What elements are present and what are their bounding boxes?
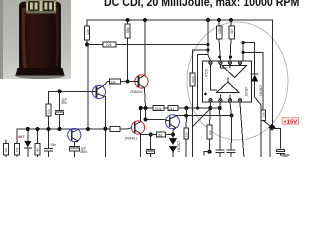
- svg-text:100k: 100k: [155, 107, 162, 111]
- resistor R9: [4, 140, 9, 157]
- wire: top bus: [87, 19, 272, 21]
- wire: bottom bus: [17, 128, 126, 130]
- diode D3: [170, 147, 177, 158]
- resistor R5 (to IC pin3): [229, 20, 235, 60]
- wire: drop to Q4 emitter: [144, 20, 146, 75]
- wire: left drop: [16, 129, 18, 146]
- resistor R11 1k on bottom bus: [110, 127, 120, 132]
- transistor Q5 (red 2N5401): [131, 121, 144, 134]
- resistor R18 drop: [185, 108, 187, 128]
- wire: Q1 collector to R6: [103, 82, 108, 87]
- svg-text:2k1: 2k1: [169, 107, 174, 111]
- capacitor C3 1uF MKS: [69, 142, 79, 157]
- capacitor C2 15n: [45, 129, 53, 157]
- resistor R2: [125, 20, 130, 82]
- node dots bottom bus: [26, 127, 108, 131]
- svg-text:1N4007: 1N4007: [177, 141, 181, 152]
- photo of CDI unit: [0, 0, 71, 79]
- diode D4 1N4007: [251, 74, 261, 157]
- wire: VCC drop to IC pin1: [208, 20, 211, 61]
- svg-text:10k: 10k: [86, 29, 90, 35]
- node dot: [58, 89, 62, 93]
- wire: right edge drop: [272, 20, 274, 127]
- capacitor C5: [216, 108, 224, 157]
- resistor R1: [85, 20, 90, 45]
- node dots top bus: [85, 18, 233, 47]
- capacitor C4 below: [147, 135, 155, 158]
- svg-text:22k: 22k: [111, 81, 117, 85]
- wire: pins down to row: [209, 102, 211, 108]
- wire: Q5 collector row to resistor: [141, 134, 151, 136]
- resistor R16 right column: [261, 110, 272, 127]
- capacitor C7 electrolytic: [277, 150, 285, 156]
- wire to Q5 base: [126, 128, 132, 129]
- wire: right column hook: [272, 129, 280, 149]
- resistor R6: [108, 79, 135, 84]
- zener D1 4V7: [24, 129, 31, 157]
- wire: Q1 base: [49, 90, 93, 92]
- svg-text:10k: 10k: [47, 109, 51, 114]
- enclosure ellipse: [187, 22, 288, 140]
- svg-text:2N5401: 2N5401: [125, 137, 138, 141]
- wire: Q5 emitter up: [140, 108, 142, 122]
- diode D2: [170, 139, 177, 145]
- resistor R3 horizontal on bus2: [103, 42, 116, 47]
- resistor R14 2k1: [151, 132, 173, 137]
- node dot +15V: [269, 124, 276, 131]
- ground: [281, 155, 289, 157]
- node dot: [126, 80, 130, 84]
- node dots row108: [139, 106, 222, 110]
- svg-text:VCC: VCC: [204, 68, 209, 77]
- svg-text:1k5: 1k5: [261, 112, 265, 117]
- node dot: [171, 133, 175, 137]
- diagonal wire: [193, 110, 209, 126]
- transistor Q1 (blue): [92, 85, 105, 98]
- svg-text:+15V: +15V: [283, 119, 297, 125]
- capacitor C6: [227, 116, 235, 157]
- wire: nest L2: [198, 55, 209, 109]
- resistor R7: [46, 104, 51, 129]
- svg-text:1M: 1M: [4, 147, 8, 152]
- wire: row118 right: [176, 115, 231, 117]
- capacitor C1 1uF 50V: [56, 91, 64, 129]
- wire: right column drop: [269, 128, 271, 157]
- wire: Q2 collector to bus: [77, 128, 79, 130]
- svg-text:10k: 10k: [15, 147, 19, 152]
- svg-text:4k7: 4k7: [36, 147, 40, 152]
- svg-text:2N5401: 2N5401: [130, 90, 143, 94]
- wire: row 118: [146, 108, 166, 120]
- transistor Q6 (blue): [166, 115, 180, 129]
- wire: Q1 emitter drop: [104, 97, 106, 158]
- resistor R4 (to IC pin2): [217, 20, 223, 60]
- wire: drop from bus2: [87, 45, 89, 130]
- op-amp IC U1: [203, 61, 252, 102]
- svg-text:100k: 100k: [191, 76, 195, 83]
- svg-text:56k: 56k: [126, 27, 130, 33]
- svg-text:1N4007: 1N4007: [259, 85, 263, 96]
- resistor R15 below pin1: [204, 108, 212, 155]
- resistor R13 2k1: [168, 106, 178, 111]
- IC labels: [204, 68, 249, 96]
- svg-text:15n: 15n: [51, 143, 57, 147]
- svg-text:10k: 10k: [185, 132, 189, 137]
- svg-text:4V7: 4V7: [18, 135, 25, 139]
- svg-text:22k: 22k: [106, 43, 112, 47]
- transistor Q2 (blue): [68, 128, 81, 142]
- svg-text:4k7: 4k7: [230, 29, 234, 34]
- wire: row 108: [141, 107, 220, 109]
- resistor R8: [15, 144, 20, 156]
- label +15V: [282, 118, 299, 126]
- wire: corner to R7: [48, 91, 50, 104]
- resistor R10: [35, 129, 40, 157]
- svg-text:GND: GND: [244, 87, 249, 96]
- wire: pin4 up and right: [240, 43, 243, 61]
- wire: Q6 emitter to diodes: [173, 128, 176, 139]
- svg-text:2k1: 2k1: [158, 134, 163, 138]
- wire: nest L1: [193, 50, 209, 73]
- svg-text:50V: 50V: [62, 101, 69, 105]
- wire: Q5 collector down: [140, 134, 142, 157]
- svg-text:10k: 10k: [208, 130, 212, 135]
- wire: second bus: [87, 44, 208, 46]
- wire: Q4 collector down: [145, 88, 146, 108]
- transistor Q4 (red 2N5401): [135, 75, 148, 88]
- svg-text:MKS: MKS: [81, 150, 88, 154]
- node dot: [206, 43, 209, 46]
- resistor R12 100k: [153, 106, 164, 111]
- svg-text:100k: 100k: [218, 27, 222, 34]
- title caption (clipped at top): [104, 0, 299, 9]
- resistor R17: [190, 73, 195, 86]
